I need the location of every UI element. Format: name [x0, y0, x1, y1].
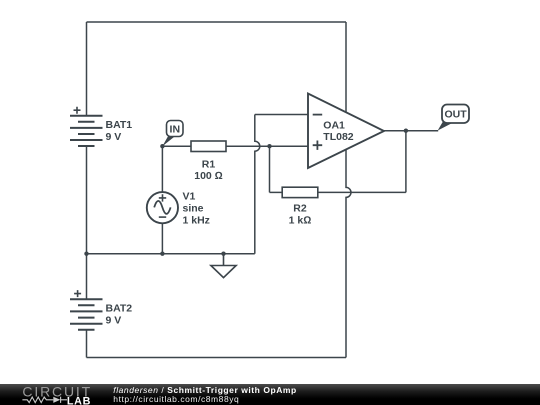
svg-text:R2: R2 [293, 203, 307, 215]
svg-text:100 Ω: 100 Ω [194, 170, 223, 182]
svg-text:http://circuitlab.com/c8m88yq: http://circuitlab.com/c8m88yq [113, 394, 239, 404]
svg-text:IN: IN [170, 123, 181, 135]
svg-text:OA1: OA1 [323, 119, 345, 131]
svg-text:LAB: LAB [67, 395, 91, 405]
svg-text:9 V: 9 V [106, 314, 122, 326]
svg-text:1 kHz: 1 kHz [183, 214, 210, 226]
svg-text:1 kΩ: 1 kΩ [289, 214, 312, 226]
svg-text:OUT: OUT [445, 109, 468, 121]
svg-text:sine: sine [183, 202, 204, 214]
svg-text:BAT2: BAT2 [106, 303, 133, 315]
svg-text:BAT1: BAT1 [106, 119, 133, 131]
svg-text:TL082: TL082 [323, 131, 354, 143]
svg-text:R1: R1 [202, 158, 216, 170]
svg-text:9 V: 9 V [106, 131, 122, 143]
svg-text:V1: V1 [183, 190, 196, 202]
